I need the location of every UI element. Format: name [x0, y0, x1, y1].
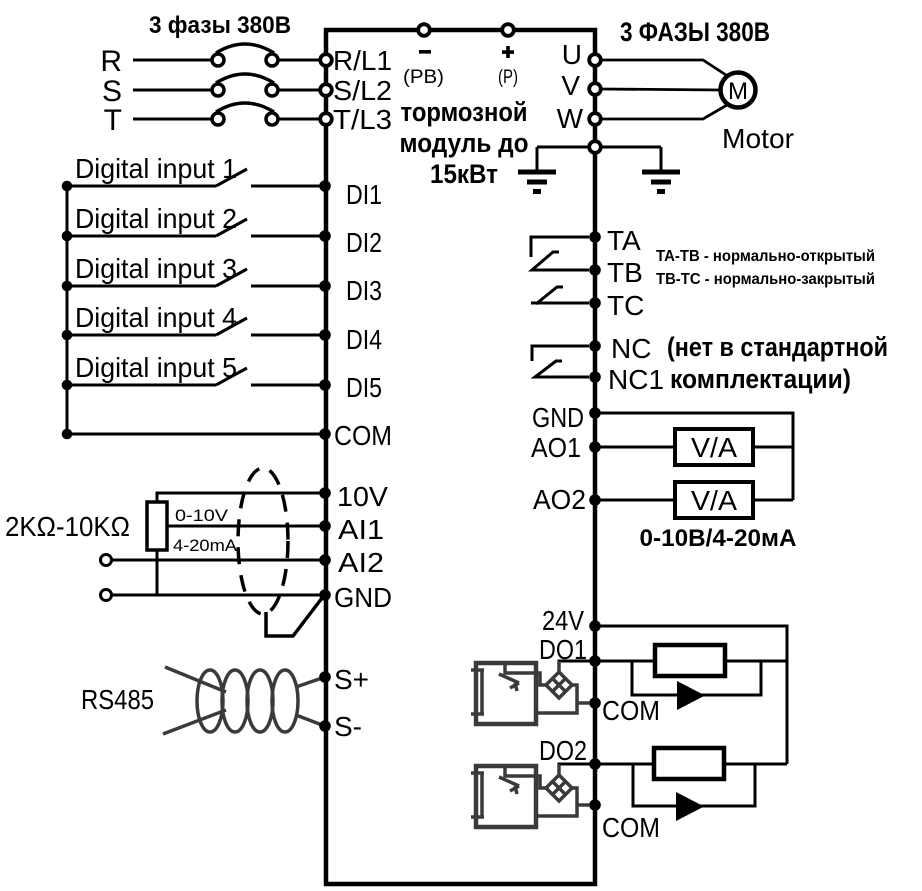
svg-text:DI2: DI2 — [346, 227, 382, 258]
node DI4 — [319, 329, 331, 341]
wire V/A 2 to bus — [753, 499, 793, 502]
svg-text:Digital input 2: Digital input 2 — [75, 203, 237, 234]
breaker contact S — [212, 74, 278, 96]
terminal S/L2 — [320, 84, 332, 96]
svg-text:2KΩ-10KΩ: 2KΩ-10KΩ — [5, 511, 130, 542]
svg-text:RS485: RS485 — [81, 684, 154, 715]
svg-text:NC: NC — [611, 333, 651, 364]
wire R — [133, 59, 212, 62]
wire PE to left ground — [537, 146, 589, 149]
label 4-20mA — [173, 536, 238, 555]
terminal GND external — [101, 590, 112, 601]
node AI2 — [319, 554, 331, 566]
optocoupler U2 — [471, 766, 536, 827]
label (PB) — [403, 67, 444, 88]
svg-text:TA: TA — [607, 225, 641, 256]
RS485 cable coil — [163, 667, 322, 734]
potentiometer R1 body — [147, 502, 167, 550]
relay coil K1 — [655, 645, 725, 676]
wire AI2 — [112, 559, 321, 562]
svg-text:10V: 10V — [337, 481, 388, 512]
node DI5 bus — [62, 380, 73, 391]
terminal AI2 external — [101, 555, 112, 566]
svg-text:комплектации): комплектации) — [670, 364, 851, 394]
wire GND out to right — [595, 413, 793, 500]
phase T label — [104, 104, 122, 137]
svg-text:(нет в стандартной: (нет в стандартной — [667, 332, 888, 362]
svg-text:V: V — [561, 70, 580, 101]
terminal R/L1 — [320, 54, 332, 66]
svg-text:TC: TC — [607, 290, 644, 321]
label R/L1 — [333, 45, 392, 76]
svg-text:COM: COM — [334, 420, 392, 451]
relay contact NC1 blade — [535, 361, 589, 377]
wire V to motor — [601, 89, 720, 90]
node DI4 bus — [62, 330, 73, 341]
label U — [562, 39, 582, 70]
bridge diamond X2 — [536, 764, 590, 816]
wire U to motor — [601, 60, 726, 75]
svg-text:DI4: DI4 — [346, 324, 382, 355]
wire S — [133, 89, 212, 92]
svg-text:AI2: AI2 — [338, 547, 384, 578]
svg-text:V/A: V/A — [691, 432, 737, 463]
wire S to terminal — [278, 89, 321, 92]
wire DI1 right — [251, 185, 320, 188]
wire R1 top to 10V — [157, 493, 321, 502]
label AO2 — [533, 484, 586, 515]
terminal U — [589, 54, 601, 66]
wire R1 bottom down — [156, 550, 159, 595]
svg-text:24V: 24V — [542, 605, 584, 636]
switch S1 blade — [216, 169, 247, 186]
wire DI3 left — [67, 285, 216, 288]
svg-text:W: W — [557, 103, 584, 134]
label W — [557, 103, 584, 134]
optocoupler U1 — [471, 663, 536, 724]
digital input bus (left vertical) — [66, 186, 69, 434]
label RS485 — [81, 684, 154, 715]
label NC1 — [608, 364, 664, 395]
wire wiper to AI1 — [167, 525, 321, 528]
label 10V — [337, 481, 388, 512]
phase R label — [100, 45, 122, 78]
relay contact TC blade — [531, 287, 589, 304]
wire DO1 right — [595, 660, 787, 663]
node AI1 — [319, 520, 331, 532]
label NC — [611, 333, 651, 364]
note TB-TC normally closed — [656, 271, 875, 288]
terminal + (P) on top edge — [502, 24, 514, 36]
ground (left) — [518, 147, 556, 192]
ground (right) — [642, 147, 680, 192]
svg-text:V/A: V/A — [691, 485, 737, 516]
svg-text:3 фазы 380В: 3 фазы 380В — [149, 12, 291, 39]
svg-text:15кВт: 15кВт — [430, 159, 498, 189]
switch S3 blade — [216, 269, 247, 286]
wire DI5 right — [251, 384, 320, 387]
wire DI2 left — [67, 235, 216, 238]
label TC — [607, 290, 644, 321]
svg-text:AO1: AO1 — [531, 432, 581, 463]
node COM — [319, 428, 331, 440]
label TA — [607, 225, 641, 256]
label (P) — [498, 67, 518, 88]
node DI2 — [319, 230, 331, 242]
motor M1 — [721, 73, 756, 108]
svg-text:4-20mA: 4-20mA — [173, 536, 238, 555]
node DI3 — [319, 280, 331, 292]
svg-text:Digital input 5: Digital input 5 — [75, 352, 237, 383]
svg-text:AO2: AO2 — [533, 484, 586, 515]
label GND analog — [334, 582, 392, 613]
node TC — [589, 297, 601, 309]
diode D2 loop — [633, 764, 755, 821]
node DO1 — [589, 655, 601, 667]
svg-text:S+: S+ — [334, 664, 369, 695]
label AI1 — [338, 514, 384, 545]
wire DI4 right — [251, 334, 320, 337]
wire DI2 right — [251, 235, 320, 238]
svg-text:ТВ-ТС - нормально-закрытый: ТВ-ТС - нормально-закрытый — [656, 271, 875, 288]
svg-text:DI1: DI1 — [346, 179, 382, 210]
svg-text:тормозной: тормозной — [401, 97, 528, 127]
label: 3 фазы 380В (input) — [149, 12, 291, 39]
label 0-10В/4-20мА — [640, 525, 797, 552]
relay contact NC fixed — [532, 346, 589, 361]
wire W to motor — [601, 105, 727, 119]
node AO2 — [589, 494, 601, 506]
label 2KΩ-10KΩ — [5, 511, 130, 542]
label DO1 — [539, 634, 587, 665]
terminal V — [589, 83, 601, 95]
node TA — [589, 231, 601, 243]
svg-text:ТА-ТВ - нормально-открытый: ТА-ТВ - нормально-открытый — [656, 248, 875, 265]
shield drain wire — [266, 598, 322, 636]
svg-text:Digital input 4: Digital input 4 — [75, 302, 237, 333]
wire DI3 right — [251, 285, 320, 288]
wire PE to right ground — [601, 146, 661, 149]
switch S5 blade — [216, 368, 247, 385]
svg-text:S-: S- — [334, 711, 362, 742]
label AI2 — [338, 547, 384, 578]
label DI4 — [346, 324, 382, 355]
wire DO2 right — [595, 763, 787, 766]
label Digital input 5 — [75, 352, 237, 383]
wire COM (digital) — [67, 433, 320, 436]
meter V/A 1 — [675, 429, 753, 465]
note TA-TB normally open — [656, 248, 875, 265]
wire DO2 left stub — [559, 764, 592, 776]
node DI3 bus — [62, 281, 73, 292]
wire DI1 left — [67, 185, 216, 188]
node NC1 — [589, 371, 601, 383]
svg-text:0-10В/4-20мА: 0-10В/4-20мА — [640, 525, 797, 552]
wire DO1 left stub — [559, 661, 592, 673]
wire DI4 left — [67, 334, 216, 337]
svg-text:DI5: DI5 — [346, 372, 382, 403]
diode D1 loop — [632, 661, 761, 710]
node NC — [589, 340, 601, 352]
svg-text:T: T — [104, 104, 122, 137]
svg-text:Motor: Motor — [722, 123, 794, 154]
meter V/A 2 — [675, 482, 753, 518]
node 10V — [319, 487, 331, 499]
label DI3 — [346, 275, 382, 306]
label 24V — [542, 605, 584, 636]
label S- — [334, 711, 362, 742]
label Digital input 4 — [75, 302, 237, 333]
relay contact TA fixed — [531, 237, 589, 257]
svg-text:(PB): (PB) — [403, 67, 444, 88]
wire V/A 1 to bus — [753, 446, 793, 449]
VFD inverter box outline — [326, 30, 595, 884]
label minus — [419, 50, 431, 54]
label Digital input 1 — [75, 153, 237, 184]
svg-text:GND: GND — [334, 582, 392, 613]
wire AO1 — [595, 446, 675, 449]
label plus — [502, 46, 514, 58]
label V — [561, 70, 580, 101]
wire T — [133, 118, 212, 121]
terminal - (PB) on top edge — [418, 24, 430, 36]
shield ellipse (dashed) — [238, 468, 288, 614]
label S/L2 — [333, 75, 392, 106]
node S- — [319, 720, 331, 732]
bridge diamond X1 — [536, 661, 590, 713]
svg-text:M: M — [728, 78, 748, 105]
terminal T/L3 — [320, 113, 332, 125]
terminal W — [589, 113, 601, 125]
switch S2 blade — [216, 219, 247, 236]
svg-text:DI3: DI3 — [346, 275, 382, 306]
svg-text:NC1: NC1 — [608, 364, 664, 395]
svg-text:R/L1: R/L1 — [333, 45, 392, 76]
node DI1 — [319, 180, 331, 192]
label Digital input 3 — [75, 253, 237, 284]
node 24V — [589, 620, 601, 632]
label GND (analog out) — [532, 402, 584, 433]
svg-text:COM: COM — [602, 812, 660, 843]
wire GND analog — [112, 594, 321, 597]
label 0-10V — [175, 506, 229, 525]
label T/L3 — [333, 104, 392, 135]
label COM — [334, 420, 392, 451]
label тормозной модуль до 15кВт — [400, 97, 529, 189]
relay contact TB blade — [532, 252, 589, 270]
note (нет в стандартной комплектации) — [667, 332, 888, 394]
wire R to terminal — [278, 59, 321, 62]
svg-text:TB: TB — [607, 257, 643, 288]
label DO2 — [539, 735, 587, 766]
svg-text:DO2: DO2 — [539, 735, 587, 766]
svg-text:GND: GND — [532, 402, 584, 433]
node DI5 — [319, 379, 331, 391]
wire 24V to right bus — [595, 626, 787, 764]
label AO1 — [531, 432, 581, 463]
node DO2 — [589, 758, 601, 770]
svg-text:Digital input 1: Digital input 1 — [75, 153, 237, 184]
label DI5 — [346, 372, 382, 403]
svg-text:COM: COM — [602, 695, 660, 726]
svg-text:Digital input 3: Digital input 3 — [75, 253, 237, 284]
svg-text:3 ФАЗЫ 380В: 3 ФАЗЫ 380В — [620, 17, 770, 47]
svg-text:модуль до: модуль до — [400, 128, 529, 158]
label COM2 — [602, 812, 660, 843]
node DI1 bus — [62, 181, 73, 192]
relay coil K2 — [654, 748, 724, 779]
terminal PE — [589, 141, 601, 153]
svg-text:0-10V: 0-10V — [175, 506, 229, 525]
switch S4 blade — [216, 318, 247, 335]
node COM bus — [62, 429, 73, 440]
wire T to terminal — [278, 118, 321, 121]
label Motor — [722, 123, 794, 154]
label DI2 — [346, 227, 382, 258]
node S+ — [319, 671, 331, 683]
svg-text:(P): (P) — [498, 67, 518, 88]
node COM2 — [589, 799, 601, 811]
node TB — [589, 264, 601, 276]
label COM1 — [602, 695, 660, 726]
node DI2 bus — [62, 231, 73, 242]
breaker contact R (circles + arc) — [212, 44, 278, 66]
node AO1 — [589, 441, 601, 453]
svg-text:AI1: AI1 — [338, 514, 384, 545]
svg-text:T/L3: T/L3 — [333, 104, 392, 135]
label: 3 ФАЗЫ 380В (output) — [620, 17, 770, 47]
node GND out — [589, 407, 601, 419]
svg-text:U: U — [562, 39, 582, 70]
breaker contact T — [212, 103, 278, 125]
node GND analog — [319, 589, 331, 601]
svg-text:S/L2: S/L2 — [333, 75, 392, 106]
wire AO2 — [595, 499, 675, 502]
label TB — [607, 257, 643, 288]
label Digital input 2 — [75, 203, 237, 234]
phase S label — [102, 75, 122, 108]
node COM1 — [589, 697, 601, 709]
label S+ — [334, 664, 369, 695]
label DI1 — [346, 179, 382, 210]
wire DI5 left — [67, 384, 216, 387]
svg-text:R: R — [100, 45, 122, 78]
